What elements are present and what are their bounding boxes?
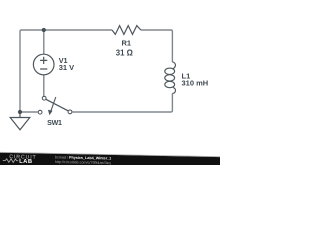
svg-text:R1: R1 xyxy=(122,39,132,48)
switch SW1 common terminal xyxy=(68,110,72,114)
wire: top node to V1 top xyxy=(43,30,45,54)
footer bar (slightly tilted like the source thumbnail) xyxy=(0,152,223,172)
wire: top wire right of resistor + top-right corner + right vertical to inductor xyxy=(141,30,173,62)
node: junction at ground and left wire xyxy=(18,110,22,114)
switch SW1 left throw terminal xyxy=(38,110,42,114)
svg-text:310 mH: 310 mH xyxy=(182,79,209,88)
wire: left vertical + top-left corner + top wire to resistor xyxy=(20,30,112,112)
wire: V1 bottom to switch top throw xyxy=(43,75,45,96)
node: junction at top wire and V1 branch xyxy=(42,28,46,32)
wire: right vertical below inductor + bottom-right corner + bottom wire to switch common xyxy=(72,93,172,112)
svg-text:LAB: LAB xyxy=(19,159,33,165)
voltage source V1 xyxy=(33,54,54,75)
svg-text:SW1: SW1 xyxy=(47,119,62,127)
ground xyxy=(10,112,30,130)
switch SW1 blade xyxy=(46,99,68,111)
resistor R1 xyxy=(112,26,141,35)
inductor L1 xyxy=(165,62,176,94)
wire: switch left throw to ground junction xyxy=(20,111,38,113)
switch SW1 top throw terminal xyxy=(42,96,46,100)
footer CircuitLab logo: resistor zigzag xyxy=(3,159,18,163)
switch SW1 actuator arrow xyxy=(51,97,56,111)
svg-text:31 Ω: 31 Ω xyxy=(116,48,133,57)
svg-text:31 V: 31 V xyxy=(59,63,74,72)
switch SW1 arrowhead xyxy=(48,110,53,116)
